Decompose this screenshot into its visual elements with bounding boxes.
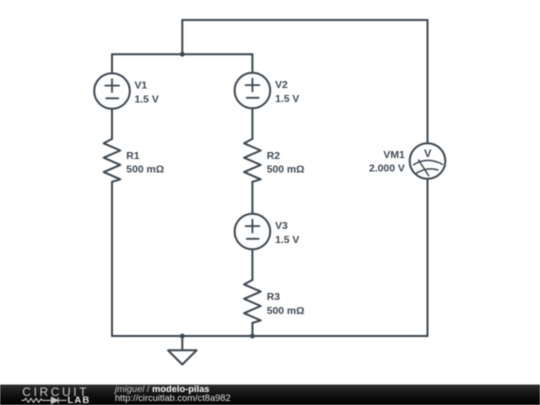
footer credit line xyxy=(113,384,231,403)
wire V2 top stub xyxy=(251,54,253,72)
wire V1 to R1 xyxy=(111,109,113,139)
wire right vertical lower xyxy=(427,179,429,336)
footer logo resistor-diode icon xyxy=(22,397,67,403)
voltage source V1 xyxy=(94,73,130,109)
wire V3 to R3 xyxy=(251,249,253,280)
svg-text:R2: R2 xyxy=(267,151,281,162)
wire R2 to V3 xyxy=(251,182,253,214)
svg-text:1.5 V: 1.5 V xyxy=(135,94,159,105)
node junction top xyxy=(180,52,185,57)
svg-text:500 mΩ: 500 mΩ xyxy=(126,165,164,176)
wire second horizontal xyxy=(112,53,252,55)
wire bottom horizontal xyxy=(112,335,428,337)
svg-text:VM1: VM1 xyxy=(383,150,405,161)
svg-text:R3: R3 xyxy=(267,292,281,303)
node junction ground xyxy=(180,334,185,339)
svg-text:http://circuitlab.com/ct8a982: http://circuitlab.com/ct8a982 xyxy=(115,393,231,403)
resistor R1 xyxy=(104,139,121,182)
label VM1 xyxy=(369,148,432,175)
voltmeter VM1 xyxy=(410,143,446,179)
resistor R2 xyxy=(244,139,261,182)
svg-text:R1: R1 xyxy=(126,151,140,162)
svg-text:2.000 V: 2.000 V xyxy=(369,163,405,174)
svg-text:LAB: LAB xyxy=(68,395,91,405)
label R1 xyxy=(126,151,164,176)
label V2 xyxy=(275,80,299,105)
svg-text:1.5 V: 1.5 V xyxy=(275,94,299,105)
svg-text:V1: V1 xyxy=(135,80,148,91)
label V3 xyxy=(275,221,299,246)
node junction R3 bottom xyxy=(250,334,255,339)
wire V1 top stub xyxy=(111,54,113,73)
label R3 xyxy=(267,292,305,317)
ground xyxy=(168,336,197,365)
svg-text:V: V xyxy=(424,148,432,160)
wire top horizontal xyxy=(182,19,427,21)
label R2 xyxy=(267,151,305,176)
wire top mid vertical xyxy=(181,20,183,54)
label V1 xyxy=(135,80,159,105)
wire right vertical upper xyxy=(427,20,429,143)
svg-text:1.5 V: 1.5 V xyxy=(275,235,299,246)
wire R1 to bottom xyxy=(111,182,113,336)
svg-text:V3: V3 xyxy=(275,221,288,232)
wire V2 to R2 xyxy=(251,108,253,139)
voltage source V2 xyxy=(235,73,271,109)
svg-text:500 mΩ: 500 mΩ xyxy=(267,165,305,176)
resistor R3 xyxy=(244,280,261,323)
svg-text:V2: V2 xyxy=(275,80,288,91)
svg-text:500 mΩ: 500 mΩ xyxy=(267,306,305,317)
wire R3 to bottom xyxy=(251,323,253,336)
voltage source V3 xyxy=(235,214,271,250)
footer bar xyxy=(0,385,540,405)
